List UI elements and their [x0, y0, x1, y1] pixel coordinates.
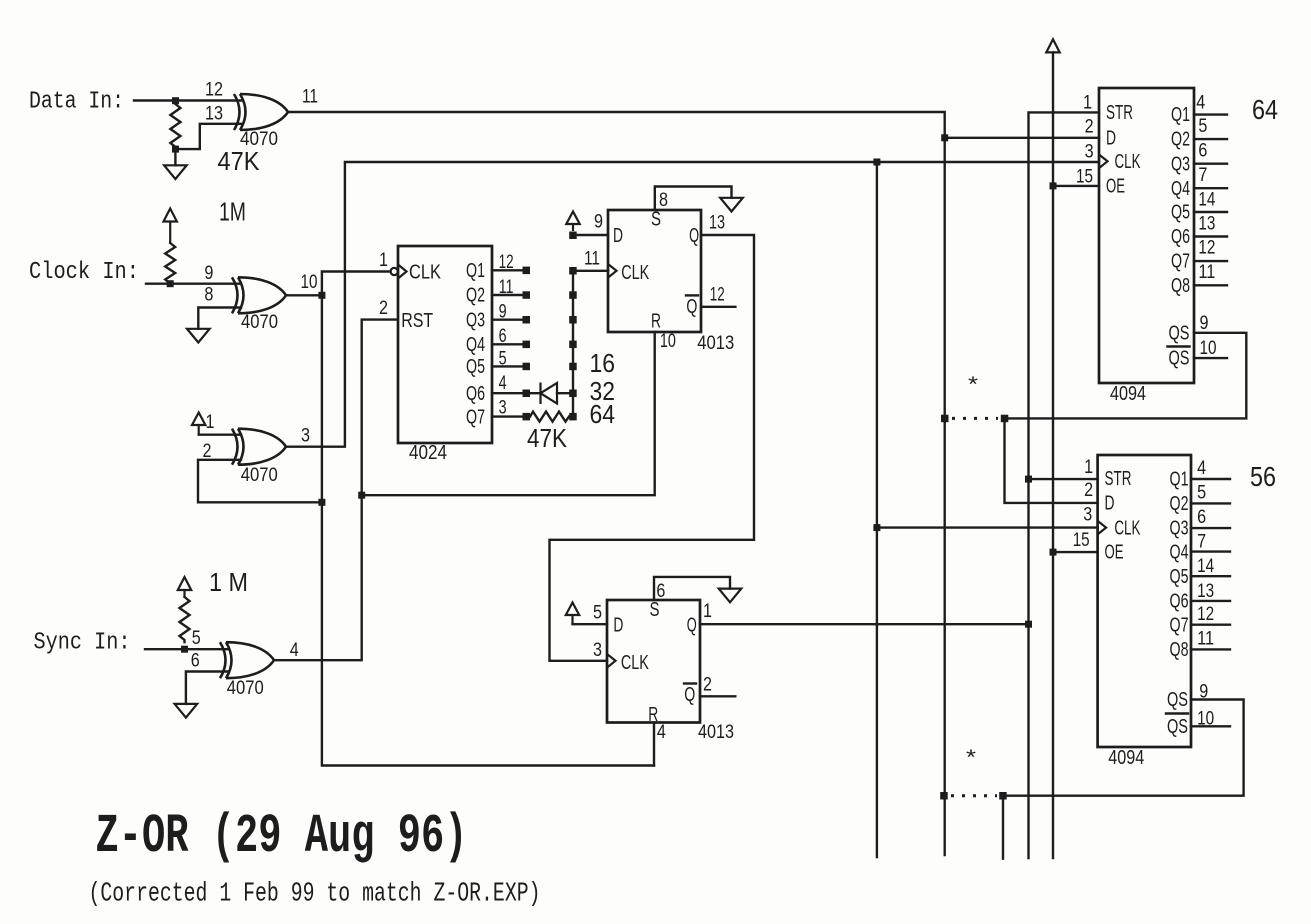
flipflop U3b 4013 lower [593, 581, 734, 743]
svg-text:Q: Q [687, 615, 697, 637]
node xor3 pin2 junction [318, 499, 325, 506]
svg-text:QS: QS [1169, 322, 1190, 344]
node dotted left lower [940, 792, 948, 800]
svg-text:11: 11 [302, 87, 318, 108]
svg-text:12: 12 [710, 285, 725, 306]
svg-text:4: 4 [1196, 93, 1205, 114]
node clk branch [873, 159, 880, 166]
svg-text:6: 6 [1198, 141, 1207, 162]
svg-text:9: 9 [204, 263, 213, 284]
svg-text:1: 1 [206, 412, 215, 433]
wire clock-out bus down to lower 4013 R [322, 295, 654, 765]
svg-text:3: 3 [1085, 142, 1094, 163]
pin 7 stub Q4 lower [1191, 550, 1230, 552]
svg-text:11: 11 [499, 277, 514, 298]
svg-text:D: D [1106, 127, 1116, 149]
svg-text:15: 15 [1073, 530, 1090, 551]
svg-text:3: 3 [1083, 504, 1092, 525]
svg-text:1: 1 [703, 601, 712, 622]
node clock out junction [318, 292, 325, 299]
ground GND2 [187, 329, 210, 343]
power arrow upper 4013 D [572, 224, 574, 231]
xor gate U1b 4070 [204, 263, 317, 333]
diode D1 on Q6 row [530, 392, 539, 394]
patch bus vertical [572, 271, 574, 417]
svg-text:Q7: Q7 [466, 406, 485, 428]
svg-text:R: R [651, 310, 661, 332]
shift register U5 4094 lower [1073, 455, 1191, 769]
svg-text:CLK: CLK [1114, 518, 1140, 540]
svg-text:12: 12 [1198, 238, 1215, 259]
svg-text:10: 10 [301, 272, 318, 293]
svg-text:1: 1 [1083, 93, 1092, 114]
svg-text:*: * [968, 373, 978, 396]
svg-text:Q7: Q7 [1170, 615, 1189, 637]
svg-text:Q5: Q5 [1171, 202, 1190, 224]
svg-text:4: 4 [657, 722, 666, 743]
ground GND1 [174, 149, 176, 165]
svg-text:Data In:: Data In: [29, 89, 124, 116]
xor gate U1a 4070 [205, 80, 318, 150]
wire QSbar stub pin 10 [1194, 357, 1227, 359]
wire clock gate output [286, 294, 322, 296]
svg-text:8: 8 [659, 190, 668, 211]
svg-text:1 M: 1 M [209, 567, 248, 597]
svg-text:Q3: Q3 [1170, 518, 1189, 540]
svg-text:4: 4 [290, 640, 299, 661]
svg-text:6: 6 [656, 581, 665, 602]
svg-text:3: 3 [499, 398, 507, 419]
pin 5 stub Q2 lower [1191, 502, 1230, 504]
svg-text:Q3: Q3 [466, 309, 485, 331]
counter U2 4024 [379, 246, 492, 464]
svg-text:4094: 4094 [1108, 747, 1144, 769]
pin 6 stub Q4 [492, 343, 523, 345]
pin 4 stub Q6 [492, 392, 523, 394]
svg-text:4070: 4070 [227, 678, 264, 699]
wire D pin 5 lower 4013 [573, 623, 608, 625]
svg-text:5: 5 [1197, 483, 1206, 504]
svg-text:13: 13 [1198, 214, 1215, 235]
svg-text:RST: RST [401, 310, 433, 332]
wire reset to upper 4013 R pin 10 [362, 332, 655, 495]
svg-text:Sync In:: Sync In: [34, 630, 131, 657]
svg-text:5: 5 [1198, 116, 1207, 137]
svg-text:11: 11 [1198, 262, 1215, 283]
svg-text:12: 12 [499, 252, 514, 273]
node OE lower [1050, 549, 1057, 556]
wire Qbar stub pin 12 [701, 306, 735, 308]
node sync junction [181, 646, 188, 653]
svg-text:2: 2 [379, 298, 388, 319]
wire QS pin 9 wrap lower [1007, 700, 1244, 796]
svg-text:D: D [613, 225, 623, 247]
pin 13 stub Q6 lower [1191, 600, 1230, 602]
svg-text:Q1: Q1 [1170, 469, 1189, 491]
wire OE bus [1052, 52, 1054, 858]
svg-text:9: 9 [1200, 313, 1209, 334]
node bus q7 [569, 413, 577, 421]
power arrow VDD top [1046, 39, 1059, 52]
svg-text:5: 5 [593, 603, 602, 624]
pin 11 stub Q2 [492, 294, 523, 296]
svg-text:(Corrected 1 Feb 99 to match Z: (Corrected 1 Feb 99 to match Z-OR.EXP) [89, 880, 541, 910]
shift register U4 4094 upper [1076, 88, 1194, 405]
svg-text:Q5: Q5 [1170, 566, 1189, 588]
svg-text:64: 64 [1252, 94, 1278, 125]
wire D pin 9 upper 4013 [573, 234, 608, 236]
node data-in junction [172, 97, 179, 104]
node OE upper [1050, 182, 1057, 189]
pin 12 stub Q1 [492, 269, 523, 271]
svg-text:9: 9 [594, 212, 603, 233]
svg-text:47K: 47K [218, 146, 261, 176]
resistor R2 1M [165, 243, 175, 284]
wire S pin 6 to ground [654, 577, 730, 600]
node bus q1 [569, 267, 577, 275]
svg-text:10: 10 [1197, 708, 1214, 729]
wire pin6 to ground [186, 672, 229, 704]
svg-text:7: 7 [1198, 165, 1207, 186]
wire stub below lower link [1002, 796, 1004, 859]
svg-text:7: 7 [1197, 532, 1206, 553]
node reset tee [358, 492, 365, 499]
svg-text:4094: 4094 [1110, 383, 1146, 405]
power arrow sync pullup [183, 590, 185, 597]
wire bus to upper 4013 CLK pin 11 [573, 270, 608, 272]
svg-text:2: 2 [203, 441, 212, 462]
node dotted right lower [999, 792, 1007, 800]
pin 12 stub Q7 lower [1191, 624, 1230, 626]
pin 14 stub Q5 lower [1191, 575, 1230, 577]
wire D pin upper 4094 [945, 137, 1099, 139]
ground GND3 [175, 704, 198, 718]
pin 11 stub Q8 [1194, 284, 1227, 286]
svg-text:56: 56 [1250, 461, 1276, 492]
svg-text:2: 2 [703, 675, 712, 696]
wire to 4024 CLK pin 1 [322, 272, 391, 296]
svg-text:Q6: Q6 [1170, 591, 1189, 613]
wire xor3 output clock line to 4094 CLK pins [286, 162, 1099, 447]
pin 13 stub Q6 [1194, 235, 1227, 237]
svg-text:6: 6 [191, 651, 200, 672]
svg-text:4013: 4013 [698, 722, 734, 743]
svg-text:9: 9 [1199, 682, 1208, 703]
wire xor3 pin1 [199, 434, 241, 436]
svg-text:Z-OR (29 Aug 96): Z-OR (29 Aug 96) [96, 805, 468, 868]
wire pin13 to gate [175, 124, 241, 149]
svg-text:Q3: Q3 [1171, 153, 1190, 175]
wire Qbar stub pin 2 [700, 695, 735, 697]
svg-text:16: 16 [590, 348, 616, 378]
svg-text:14: 14 [1198, 189, 1215, 210]
svg-text:6: 6 [499, 326, 507, 347]
svg-text:4070: 4070 [241, 312, 278, 333]
svg-text:Q5: Q5 [466, 356, 485, 378]
svg-text:Q6: Q6 [1171, 226, 1190, 248]
wire data input [134, 99, 241, 101]
wire clock input [146, 283, 241, 285]
resistor R4 47K on Q7 row [530, 412, 569, 422]
node data to D pin [941, 134, 948, 141]
node clock junction [167, 280, 174, 287]
pin 12 stub Q7 [1194, 260, 1227, 262]
svg-text:10: 10 [1200, 338, 1217, 359]
svg-text:Q: Q [684, 684, 695, 706]
wire S pin 8 to ground [655, 187, 732, 211]
svg-text:5: 5 [192, 628, 201, 649]
flipflop U3a 4013 upper [584, 190, 734, 354]
wire sync output to reset net [274, 320, 398, 661]
pin 5 stub Q5 [492, 365, 523, 367]
svg-text:Q6: Q6 [466, 383, 485, 405]
svg-text:4024: 4024 [409, 442, 447, 464]
svg-text:Q: Q [686, 296, 697, 318]
svg-text:2: 2 [1084, 480, 1093, 501]
dotted link upper [952, 417, 998, 420]
power arrow xor3 pin1 [198, 425, 200, 435]
svg-text:1: 1 [379, 250, 388, 271]
pin 5 stub Q2 [1194, 138, 1227, 140]
node dotted right upper [1001, 415, 1009, 423]
wire data net to 4094s [288, 112, 945, 855]
svg-text:5: 5 [499, 348, 507, 369]
xor gate U1d 4070 [191, 628, 299, 699]
svg-text:Q4: Q4 [1171, 178, 1190, 200]
svg-text:4013: 4013 [697, 333, 734, 354]
svg-text:S: S [650, 599, 660, 621]
node clk to lower 4094 [873, 524, 880, 531]
pin 6 stub Q3 [1194, 162, 1227, 164]
wire QSbar stub pin 10 lower [1191, 725, 1230, 727]
svg-text:Q2: Q2 [1170, 493, 1189, 515]
svg-text:CLK: CLK [1115, 151, 1141, 173]
svg-text:14: 14 [1197, 556, 1214, 577]
svg-text:CLK: CLK [621, 652, 649, 674]
svg-text:Q8: Q8 [1170, 639, 1189, 661]
svg-text:13: 13 [205, 104, 223, 125]
svg-text:Q1: Q1 [466, 260, 485, 282]
svg-text:15: 15 [1076, 166, 1093, 187]
node bus q2 [569, 291, 577, 299]
svg-text:11: 11 [584, 249, 600, 270]
xor gate U1c 4070 [203, 412, 311, 486]
resistor R3 1M sync [180, 597, 190, 642]
svg-text:8: 8 [204, 284, 213, 305]
svg-text:10: 10 [660, 331, 676, 352]
svg-text:Q1: Q1 [1171, 104, 1190, 126]
pin 4 stub Q1 [1194, 113, 1227, 115]
svg-text:4070: 4070 [240, 129, 278, 150]
svg-text:Q2: Q2 [466, 285, 485, 307]
svg-text:Q4: Q4 [1170, 541, 1189, 563]
svg-text:OE: OE [1105, 542, 1124, 564]
svg-text:1: 1 [1084, 457, 1093, 478]
svg-text:4: 4 [1197, 458, 1206, 479]
wire STR pin 1 lower 4094 [1029, 478, 1098, 480]
pin 6 stub Q3 lower [1191, 527, 1230, 529]
node bus q3 [569, 316, 577, 324]
svg-text:4: 4 [499, 373, 507, 394]
pin 14 stub Q5 [1194, 211, 1227, 213]
wire QS pin 9 wrap to lower D link [1008, 333, 1246, 419]
svg-text:2: 2 [1085, 117, 1094, 138]
svg-text:D: D [613, 615, 623, 637]
svg-text:9: 9 [499, 302, 507, 323]
wire STR bus [1029, 112, 1100, 858]
svg-text:6: 6 [1197, 507, 1206, 528]
wire clk bus down [876, 162, 878, 857]
svg-text:13: 13 [1197, 581, 1214, 602]
wire sync input [145, 648, 229, 650]
svg-text:Q7: Q7 [1171, 251, 1190, 273]
wire OE pin 15 upper 4094 [1053, 185, 1099, 187]
svg-text:QS: QS [1167, 689, 1188, 711]
resistor R1 47K pulldown [170, 104, 180, 149]
wire xor3 pin2 from clock bus [198, 460, 322, 503]
svg-text:Q8: Q8 [1171, 275, 1190, 297]
node bus q5 [569, 363, 577, 371]
pin 11 stub Q8 lower [1191, 648, 1230, 650]
svg-text:4070: 4070 [241, 465, 278, 486]
svg-text:D: D [1105, 493, 1115, 515]
wire Q pin 1 to STR bus [700, 623, 1029, 625]
power arrow lower 4013 D [571, 615, 573, 624]
svg-text:STR: STR [1105, 468, 1132, 490]
pin 7 stub Q4 [1194, 187, 1227, 189]
node STR lower 4094 [1025, 476, 1032, 483]
pin 9 stub Q3 [492, 319, 523, 321]
svg-text:S: S [651, 209, 661, 231]
svg-text:OE: OE [1106, 176, 1125, 198]
pin 4 stub Q1 lower [1191, 478, 1230, 480]
svg-text:Q: Q [689, 225, 699, 247]
svg-text:3: 3 [593, 640, 602, 661]
svg-text:1M: 1M [219, 197, 246, 227]
svg-text:11: 11 [1197, 629, 1214, 650]
wire QS link down to D pin 2 lower 4094 [1005, 418, 1098, 503]
node bus q4 [569, 341, 577, 349]
node resistor bottom [172, 146, 179, 153]
svg-text:Q4: Q4 [466, 334, 485, 356]
wire OE pin 15 lower 4094 [1053, 551, 1098, 553]
svg-text:3: 3 [301, 425, 310, 446]
dotted link lower [951, 794, 997, 797]
ground GND5 [719, 589, 742, 603]
svg-text:64: 64 [590, 399, 616, 429]
svg-text:12: 12 [205, 80, 223, 101]
node STR strobe from 4013 [1025, 621, 1032, 628]
svg-text:CLK: CLK [409, 261, 442, 283]
svg-text:13: 13 [709, 213, 725, 234]
svg-text:QS: QS [1169, 348, 1190, 370]
svg-text:Clock In:: Clock In: [29, 259, 139, 286]
power arrow clock pullup [169, 222, 171, 244]
svg-text:*: * [966, 746, 976, 769]
svg-text:STR: STR [1106, 102, 1133, 124]
wire pin8 to ground [198, 308, 241, 329]
wire R pin 4 stub [653, 723, 655, 766]
wire CLK pin lower 4094 [877, 526, 1098, 528]
node D tie [569, 232, 577, 240]
svg-text:CLK: CLK [621, 262, 649, 284]
svg-text:12: 12 [1197, 604, 1214, 625]
svg-text:Q2: Q2 [1171, 129, 1190, 151]
node dotted left upper [941, 415, 949, 423]
pin 3 stub Q7 [492, 415, 523, 417]
svg-text:47K: 47K [527, 423, 568, 453]
wire Q pin 13 to lower 4013 CLK pin 3 [550, 235, 755, 661]
ground GND4 [720, 198, 743, 212]
node bus q6 [569, 390, 577, 398]
svg-text:QS: QS [1167, 716, 1188, 738]
